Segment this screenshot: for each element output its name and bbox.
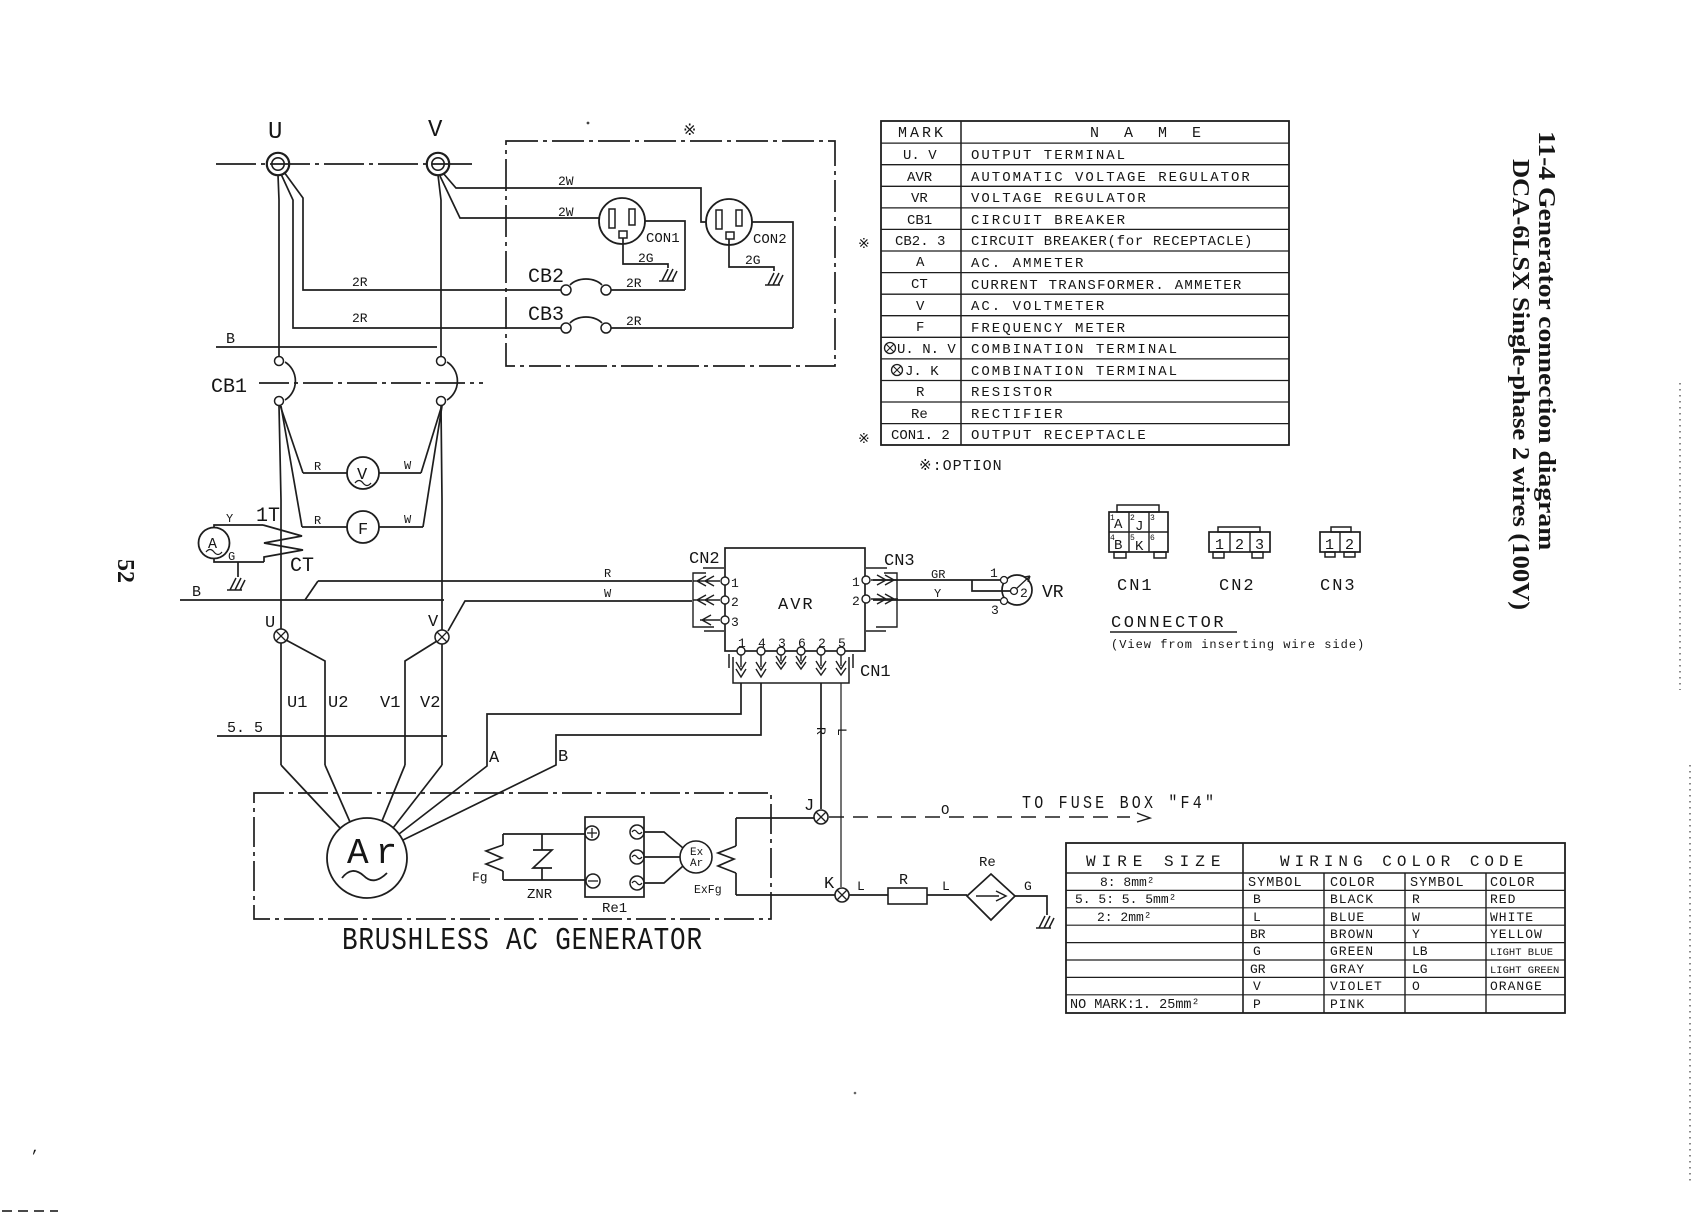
svg-text:BR: BR — [1250, 927, 1266, 942]
svg-text:BRUSHLESS AC GENERATOR: BRUSHLESS AC GENERATOR — [342, 923, 703, 959]
svg-text:SYMBOL: SYMBOL — [1410, 876, 1465, 891]
svg-text:Ar: Ar — [690, 858, 703, 870]
label BRUSHLESS AC GENERATOR — [342, 923, 703, 959]
svg-text:V: V — [428, 117, 443, 144]
svg-text:F: F — [358, 521, 368, 540]
svg-text:R: R — [314, 514, 321, 528]
wire Fg top lead — [502, 834, 504, 845]
wire ExFg top lead — [735, 818, 737, 846]
svg-text:AC. AMMETER: AC. AMMETER — [971, 256, 1085, 272]
wire V2 down to generator — [441, 644, 443, 765]
svg-text:LIGHT BLUE: LIGHT BLUE — [1490, 947, 1553, 959]
wire CN1 pin5 down to K — [840, 683, 842, 887]
svg-text:FREQUENCY METER: FREQUENCY METER — [971, 321, 1127, 337]
svg-text:AUTOMATIC VOLTAGE REGULATOR: AUTOMATIC VOLTAGE REGULATOR — [971, 170, 1252, 186]
svg-text:VOLTAGE REGULATOR: VOLTAGE REGULATOR — [971, 191, 1148, 207]
svg-text:2: 2 — [731, 595, 739, 610]
svg-text:3: 3 — [731, 615, 739, 630]
svg-text:COMBINATION TERMINAL: COMBINATION TERMINAL — [971, 364, 1179, 380]
svg-text:CB1: CB1 — [907, 213, 932, 229]
stray dot — [587, 122, 590, 125]
svg-text:CN2: CN2 — [1219, 577, 1256, 596]
CN1 pin 3 — [777, 647, 785, 655]
svg-text:CB1: CB1 — [211, 376, 247, 399]
output terminal V — [427, 153, 449, 175]
svg-text:Fg: Fg — [472, 870, 488, 885]
table MARK/NAME frame — [881, 121, 1289, 445]
svg-text:J: J — [804, 797, 814, 816]
ground CON2 — [765, 273, 783, 285]
wire CON2 ground lead (2G) — [729, 239, 774, 271]
terminal symbol in J.K row — [892, 365, 903, 376]
svg-text:B: B — [192, 584, 201, 601]
svg-text:TO FUSE BOX ″F4″: TO FUSE BOX ″F4″ — [1022, 794, 1217, 815]
combination terminal V — [435, 630, 449, 644]
svg-text:5. 5: 5. 5 — [227, 720, 263, 737]
CN1 pin 2 — [817, 647, 825, 655]
svg-text:BROWN: BROWN — [1330, 927, 1374, 942]
svg-text:CB3: CB3 — [528, 304, 564, 327]
svg-text:L: L — [942, 879, 950, 894]
wire ExFg bottom lead — [735, 873, 737, 895]
svg-text:R: R — [314, 460, 321, 474]
CN2 pin 2 — [721, 596, 729, 604]
svg-text:CON1: CON1 — [646, 231, 680, 247]
svg-text:3: 3 — [991, 603, 999, 618]
svg-text:CIRCUIT BREAKER: CIRCUIT BREAKER — [971, 213, 1127, 229]
AVR box — [725, 548, 865, 651]
svg-text:K: K — [824, 875, 835, 894]
svg-text:GR: GR — [1250, 962, 1266, 977]
wire CB2 to CON1 — [611, 289, 685, 291]
svg-text:SYMBOL: SYMBOL — [1248, 876, 1303, 891]
svg-text:R: R — [899, 872, 908, 889]
svg-text:V1: V1 — [380, 694, 400, 713]
wire size 5.5 line — [217, 735, 447, 737]
svg-text:CT: CT — [290, 555, 314, 578]
label R rotated — [813, 727, 828, 735]
Re1 plus terminal — [585, 826, 599, 840]
svg-text:2: 2 — [852, 594, 860, 609]
CN1 pin 6 — [797, 647, 805, 655]
svg-text:1: 1 — [731, 576, 739, 591]
svg-text:Y: Y — [226, 512, 233, 526]
svg-text:CN1: CN1 — [860, 663, 891, 682]
wire U2 down to generator — [286, 640, 325, 765]
svg-text:GREEN: GREEN — [1330, 944, 1374, 959]
wire CB3 to CON2 — [611, 327, 793, 329]
wire U to CB2 (2R) — [284, 172, 561, 290]
svg-text:L: L — [834, 728, 849, 736]
current transformer CT zigzag — [263, 525, 303, 562]
svg-text:1: 1 — [1110, 514, 1115, 523]
svg-text:V: V — [1253, 979, 1261, 994]
svg-text:VIOLET: VIOLET — [1330, 979, 1383, 994]
CN2 bracket — [693, 568, 724, 631]
wire diagonals to F meter — [281, 406, 302, 527]
svg-text:2R: 2R — [626, 314, 642, 329]
svg-text:U. N. V: U. N. V — [897, 342, 956, 358]
Re1 minus terminal — [586, 874, 600, 888]
wire U1 down to generator — [280, 643, 282, 765]
wire: dash-dot line through output terminals — [216, 163, 476, 165]
ground after Re — [1036, 916, 1054, 928]
svg-text:CN3: CN3 — [1320, 577, 1357, 596]
svg-text:COLOR: COLOR — [1330, 876, 1376, 891]
svg-text:U. V: U. V — [903, 148, 937, 164]
svg-text:Re1: Re1 — [602, 901, 627, 917]
svg-text:COLOR: COLOR — [1490, 876, 1536, 891]
svg-text:WHITE: WHITE — [1490, 910, 1534, 925]
wire K to R — [849, 894, 888, 896]
svg-text:1: 1 — [990, 566, 998, 581]
svg-text:L: L — [1253, 910, 1261, 925]
connector drawing CN2 body — [1209, 532, 1270, 552]
wire A from AVR CN1 pin1 — [399, 683, 741, 834]
connector drawing CN3 body — [1320, 532, 1360, 552]
svg-text:F: F — [916, 320, 924, 336]
svg-text:U1: U1 — [287, 694, 307, 713]
wire fan U2 to Ar — [325, 765, 350, 822]
svg-text:4: 4 — [758, 636, 766, 651]
svg-text:G: G — [1024, 879, 1032, 894]
CN1 pin 4 — [757, 647, 765, 655]
svg-text:(View from inserting wire side: (View from inserting wire side) — [1111, 638, 1365, 652]
svg-text:2R: 2R — [352, 275, 368, 290]
svg-text:GR: GR — [931, 568, 945, 582]
svg-text:1: 1 — [1325, 537, 1334, 554]
svg-text:DCA-6LSX Single-phase 2 wires: DCA-6LSX Single-phase 2 wires (100V) — [1507, 159, 1535, 610]
svg-text:5: 5 — [1130, 534, 1135, 543]
label TO FUSE BOX F4 — [1022, 794, 1217, 815]
wire top rail to Re1 — [503, 833, 585, 835]
svg-text:6: 6 — [1150, 534, 1155, 543]
svg-text:ZNR: ZNR — [527, 887, 553, 903]
CN1 bracket — [729, 654, 853, 683]
CN3 pin 1 arrow — [871, 575, 898, 585]
wire O dashed to fuse box — [829, 816, 1130, 818]
svg-text:AC. VOLTMETER: AC. VOLTMETER — [971, 299, 1106, 315]
title line 2: DCA-6LSX Single-phase 2 wires (100V) — [1507, 159, 1535, 610]
terminal symbol in U.N.V row — [885, 343, 896, 354]
dotted line right lower — [1689, 765, 1691, 1185]
svg-text:52: 52 — [112, 559, 138, 583]
wire CB1 left down to terminal U node — [279, 406, 281, 629]
svg-text:GRAY: GRAY — [1330, 962, 1365, 977]
wire CB1 right down to terminal V node — [441, 406, 442, 630]
wire to ground from A lead — [237, 562, 239, 577]
wire GR branch to wiper — [972, 580, 1010, 591]
wire U down to CB1 — [278, 175, 279, 356]
wire Re1 to ExAr middle — [644, 856, 680, 858]
svg-text:4: 4 — [1110, 534, 1115, 543]
wire J to ExFg — [736, 817, 814, 819]
svg-text:O: O — [1412, 979, 1420, 994]
svg-text:1: 1 — [852, 575, 860, 590]
svg-text:W: W — [404, 513, 412, 527]
svg-text:AVR: AVR — [907, 170, 933, 186]
ammeter A — [199, 528, 230, 559]
CN2 pin 3 arrow — [700, 615, 720, 625]
breaker CB2 contacts — [561, 285, 571, 295]
svg-text:,: , — [31, 1140, 40, 1157]
svg-text:2: 2 — [1020, 586, 1028, 601]
svg-text:CIRCUIT BREAKER(for RECEPTACLE: CIRCUIT BREAKER(for RECEPTACLE) — [971, 234, 1253, 250]
wire V to CON2 (2W) — [443, 173, 706, 222]
title line 1: 11-4 Generator connection diagram — [1533, 131, 1560, 551]
svg-text:Y: Y — [934, 587, 941, 601]
svg-text:B: B — [1253, 892, 1261, 907]
svg-text:COMBINATION TERMINAL: COMBINATION TERMINAL — [971, 342, 1179, 358]
svg-text:CONNECTOR: CONNECTOR — [1111, 614, 1226, 633]
breaker CB1 dash-dot line — [259, 382, 483, 384]
svg-text:CB2. 3: CB2. 3 — [895, 234, 945, 250]
wire U to CB3 (2R) — [281, 174, 561, 328]
svg-text:LG: LG — [1412, 962, 1428, 977]
svg-text:WIRE SIZE: WIRE SIZE — [1086, 853, 1226, 871]
svg-text:R: R — [1412, 892, 1420, 907]
CN2 pin 1 arrow — [693, 576, 720, 586]
svg-text:6: 6 — [798, 636, 806, 651]
wire V1 down to generator — [405, 641, 437, 765]
svg-text:VR: VR — [1042, 583, 1064, 603]
wire diagonals to V meter — [280, 405, 303, 473]
CN3 bracket — [866, 568, 897, 631]
svg-text:YELLOW: YELLOW — [1490, 927, 1543, 942]
svg-text:MARK: MARK — [898, 125, 946, 142]
breaker CB1 arc left — [285, 362, 295, 400]
svg-text:3: 3 — [1150, 514, 1155, 523]
svg-text:B: B — [226, 331, 235, 348]
wire CON1 right lead — [645, 221, 685, 290]
svg-text:LB: LB — [1412, 944, 1428, 959]
svg-text:G: G — [1253, 944, 1261, 959]
svg-text:WIRING COLOR CODE: WIRING COLOR CODE — [1280, 853, 1528, 871]
frequency meter F leads — [302, 526, 423, 528]
wire B from AVR CN1 pin4 — [403, 683, 761, 840]
svg-text:5. 5: 5. 5mm²: 5. 5: 5. 5mm² — [1075, 892, 1176, 907]
connector drawing CN1 body — [1109, 512, 1168, 552]
wire Re1 to ExAr top — [644, 832, 683, 848]
rectifier Re diamond — [967, 874, 1015, 920]
svg-text:※: ※ — [683, 122, 696, 140]
svg-text:L: L — [857, 879, 865, 894]
svg-text:Ar: Ar — [347, 833, 404, 874]
option box (dash-dot) — [506, 141, 835, 366]
CN2 pin 2 arrow — [693, 595, 720, 605]
CN2 pin 1 — [721, 577, 729, 585]
wire V to CON1 (2W) — [440, 176, 599, 218]
rectifier Re1 box — [585, 817, 644, 897]
CN1 pin 5 — [837, 647, 845, 655]
svg-text:V: V — [428, 613, 439, 632]
svg-text:Re: Re — [979, 855, 996, 871]
resistor R — [888, 888, 927, 904]
wire diagonal B bus to R wire — [305, 581, 318, 600]
svg-text:OUTPUT RECEPTACLE: OUTPUT RECEPTACLE — [971, 428, 1148, 444]
svg-text:W: W — [1412, 910, 1420, 925]
receptacle CON1 — [599, 198, 645, 244]
svg-text:A: A — [916, 255, 925, 271]
voltmeter V — [347, 457, 379, 489]
wire A top lead — [214, 525, 263, 527]
wire CON2 right lead — [752, 222, 793, 328]
wire fan V2 to Ar — [393, 765, 442, 828]
breaker CB3 contacts — [561, 323, 571, 333]
svg-text:※: ※ — [858, 237, 870, 253]
stray dot bottom middle — [854, 1092, 857, 1095]
svg-text:2R: 2R — [352, 311, 368, 326]
table WIRE SIZE / WIRING COLOR CODE frame — [1066, 843, 1565, 1013]
CN1 pin 1 — [737, 647, 745, 655]
potentiometer VR wires GR — [873, 579, 1000, 581]
wire fan V1 to Ar — [382, 765, 405, 821]
svg-text:2G: 2G — [745, 253, 761, 268]
svg-text:R: R — [813, 727, 828, 735]
svg-text:CON2: CON2 — [753, 232, 787, 248]
exciter field ExFg zigzag — [718, 846, 736, 873]
Re1 ac terminal bottom — [630, 876, 644, 890]
Re1 ac terminal top — [630, 825, 644, 839]
svg-text:2W: 2W — [558, 205, 574, 220]
field winding Fg zigzag — [486, 845, 503, 871]
svg-text:CN3: CN3 — [884, 552, 915, 571]
ground under ammeter — [227, 578, 245, 590]
svg-text:CT: CT — [911, 277, 928, 293]
svg-text:2W: 2W — [558, 174, 574, 189]
svg-text:11-4 Generator connection dia: 11-4 Generator connection diagram — [1533, 131, 1560, 551]
svg-text:W: W — [604, 587, 612, 601]
CN3 pin 2 — [862, 595, 870, 603]
svg-text:U2: U2 — [328, 694, 348, 713]
svg-text:V2: V2 — [420, 694, 440, 713]
svg-text:CURRENT TRANSFORMER. AMMETER: CURRENT TRANSFORMER. AMMETER — [971, 278, 1243, 294]
wire Fg bottom lead — [502, 871, 504, 880]
svg-text:N A M E: N A M E — [1090, 125, 1209, 142]
svg-text:3: 3 — [778, 636, 786, 651]
wire B bus — [216, 346, 437, 348]
receptacle CON2 — [706, 199, 752, 245]
wire CON1 ground lead (2G) — [623, 238, 668, 268]
svg-text:RECTIFIER: RECTIFIER — [971, 407, 1065, 423]
svg-text:CN1: CN1 — [1117, 577, 1154, 596]
wire Re to ground — [1015, 896, 1047, 915]
CN2 pin 3 — [721, 616, 729, 624]
svg-text:3: 3 — [1255, 537, 1264, 554]
svg-text:RED: RED — [1490, 892, 1516, 907]
svg-text:Re: Re — [911, 407, 928, 423]
svg-text:R: R — [604, 567, 611, 581]
svg-text:BLUE: BLUE — [1330, 910, 1365, 925]
svg-text:P: P — [1253, 997, 1261, 1012]
wire ExFg to K — [736, 894, 835, 896]
svg-text:ExFg: ExFg — [694, 884, 722, 897]
frequency meter F — [347, 511, 379, 543]
wire Re1 to ExAr bottom — [644, 866, 683, 883]
svg-text:O: O — [941, 803, 949, 819]
breaker CB3 arc — [570, 317, 602, 323]
wire B lower bus / W wire left segment — [180, 599, 444, 601]
svg-text:5: 5 — [838, 636, 846, 651]
breaker CB1 arc right — [447, 362, 457, 400]
wire R to Re — [927, 894, 967, 896]
label L rotated — [834, 728, 849, 736]
svg-text:1: 1 — [1215, 537, 1224, 554]
svg-text:K: K — [1135, 539, 1144, 555]
svg-text:BLACK: BLACK — [1330, 892, 1374, 907]
svg-text:CB2: CB2 — [528, 266, 564, 289]
svg-text:2R: 2R — [626, 276, 642, 291]
varistor ZNR — [533, 834, 552, 880]
wire bottom rail to Re1 — [503, 879, 586, 881]
svg-text:A: A — [489, 749, 500, 768]
svg-text:NO MARK:1. 25mm²: NO MARK:1. 25mm² — [1070, 998, 1200, 1013]
potentiometer VR — [1002, 575, 1032, 605]
CN3 pin 1 — [862, 576, 870, 584]
wire R to AVR CN2 pin1 — [318, 580, 692, 582]
svg-text:U: U — [265, 614, 275, 633]
combination terminal K — [835, 888, 849, 902]
svg-text:2G: 2G — [638, 251, 654, 266]
svg-text:B: B — [558, 748, 568, 767]
svg-text:V: V — [916, 299, 925, 315]
svg-text:※:OPTION: ※:OPTION — [919, 458, 1003, 475]
svg-text:※: ※ — [858, 432, 870, 448]
armature Ar — [327, 818, 407, 898]
ground CON1 — [659, 269, 677, 281]
svg-text:RESISTOR: RESISTOR — [971, 385, 1054, 401]
potentiometer VR wire Y — [873, 599, 1000, 601]
combination terminal U — [274, 629, 288, 643]
wire CN1 pin2 down to J — [820, 683, 822, 809]
dotted line right upper — [1679, 383, 1681, 690]
wire W to AVR CN2 pin2 — [448, 601, 692, 631]
svg-text:G: G — [228, 550, 235, 564]
output terminal U — [267, 153, 289, 175]
svg-text:2: 2 — [818, 636, 826, 651]
svg-text:AVR: AVR — [778, 596, 815, 615]
svg-text:2: 2 — [1130, 514, 1135, 523]
svg-text:A: A — [1114, 517, 1123, 533]
generator enclosure (dash-dot box) — [254, 793, 771, 919]
svg-text:2: 2 — [1345, 537, 1354, 554]
svg-text:1: 1 — [738, 636, 746, 651]
svg-text:PINK: PINK — [1330, 997, 1365, 1012]
Re1 ac terminal middle — [630, 850, 644, 864]
svg-text:2: 2 — [1235, 537, 1244, 554]
combination terminal J — [814, 810, 828, 824]
svg-text:VR: VR — [911, 191, 928, 207]
svg-text:W: W — [404, 459, 412, 473]
svg-text:CN2: CN2 — [689, 550, 720, 569]
svg-text:OUTPUT TERMINAL: OUTPUT TERMINAL — [971, 148, 1127, 164]
svg-text:2: 2mm²: 2: 2mm² — [1097, 910, 1152, 925]
svg-text:ORANGE: ORANGE — [1490, 979, 1543, 994]
svg-text:U: U — [268, 119, 282, 146]
svg-text:J: J — [1135, 519, 1143, 535]
CN3 pin 2 arrow — [871, 594, 898, 604]
wire fan U1 to Ar — [281, 765, 340, 828]
page number 52 — [112, 559, 138, 583]
svg-text:LIGHT GREEN: LIGHT GREEN — [1490, 965, 1559, 977]
svg-text:Y: Y — [1412, 927, 1420, 942]
svg-text:J. K: J. K — [905, 364, 939, 380]
voltmeter V leads — [303, 472, 421, 474]
exciter armature ExAr — [680, 841, 712, 873]
svg-text:B: B — [1114, 538, 1122, 554]
svg-text:CON1. 2: CON1. 2 — [891, 428, 950, 444]
wire A bottom lead — [214, 558, 264, 562]
